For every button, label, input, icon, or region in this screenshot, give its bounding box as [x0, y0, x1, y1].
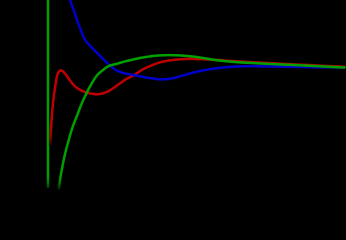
green vertical asymptote — [47, 0, 50, 188]
blue curve — [70, 0, 345, 79]
fade at green bottoms — [44, 176, 64, 189]
red curve — [50, 59, 344, 144]
green curve — [59, 55, 345, 188]
fade at red tail bottom — [49, 128, 54, 145]
